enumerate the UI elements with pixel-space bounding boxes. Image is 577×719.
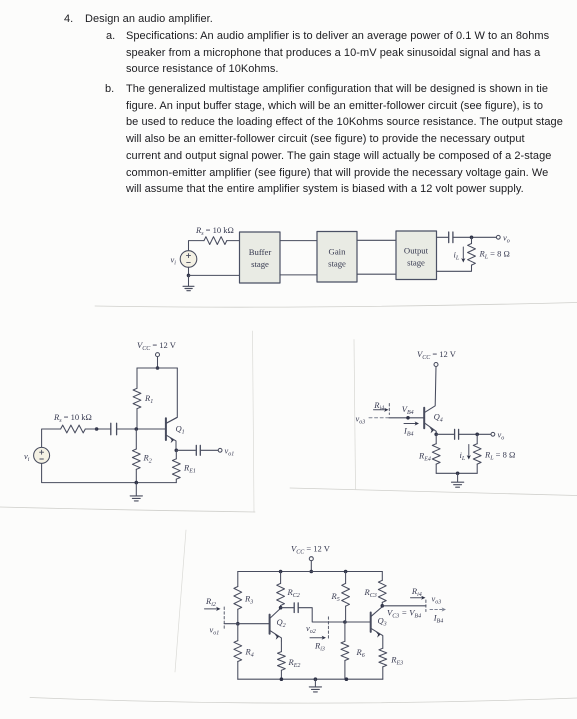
label vo1 — [225, 446, 235, 458]
transistor Q4 — [424, 408, 436, 435]
label Ri3 — [314, 641, 325, 653]
capacitor output coupling (fig2) — [196, 445, 200, 455]
transistor Q3 — [371, 607, 383, 649]
node junction RC2 rail — [279, 570, 283, 574]
svg-text:RC2: RC2 — [287, 587, 300, 599]
source vi (fig2) — [34, 447, 50, 463]
scan edge right of figure 2 — [253, 331, 255, 512]
ground (fig4) — [309, 679, 321, 692]
transistor Q1 — [166, 418, 177, 451]
label RE1 — [183, 463, 196, 475]
svg-text:VB4: VB4 — [402, 404, 414, 416]
label vo3 (fig3, faint) — [356, 414, 366, 426]
label R3 — [244, 594, 253, 606]
resistor R4 — [234, 624, 242, 680]
svg-text:R2: R2 — [143, 453, 152, 465]
node junction emitter (fig2) — [175, 449, 179, 453]
resistor R6 — [341, 622, 349, 679]
label VCC = 12 V (fig2) — [137, 340, 177, 352]
resistor R1 — [133, 368, 141, 429]
node junction emitter (fig3) — [434, 433, 438, 437]
svg-text:Q1: Q1 — [176, 424, 185, 436]
svg-text:Q4: Q4 — [434, 412, 443, 424]
label Q3 — [378, 616, 387, 628]
node junction bottom rail (fig3) — [456, 472, 460, 476]
svg-text:Ri2: Ri2 — [205, 596, 216, 608]
svg-text:vo2: vo2 — [306, 623, 316, 635]
label R2 — [143, 453, 152, 465]
wire base (fig2) — [117, 428, 166, 430]
wire source bottom — [188, 267, 190, 275]
label vi (fig1) — [171, 255, 177, 267]
resistor Rs (fig1) — [204, 237, 227, 245]
terminal vo (fig3) — [491, 432, 495, 436]
resistor RC2 — [277, 572, 285, 608]
label VCC = 12 V (fig4) — [291, 544, 331, 556]
svg-text:VCC = 12 V: VCC = 12 V — [417, 349, 457, 361]
svg-text:vo3: vo3 — [432, 594, 442, 606]
label IB4 (fig4) — [433, 613, 444, 625]
ground (fig3) — [452, 473, 464, 487]
svg-text:RE4: RE4 — [418, 451, 431, 463]
svg-text:VCC = 12 V: VCC = 12 V — [137, 340, 177, 352]
svg-text:RL = 8 Ω: RL = 8 Ω — [484, 450, 515, 462]
node junction VCC rail (fig4) — [310, 570, 314, 574]
label vo (fig3) — [498, 430, 505, 442]
resistor RE1 — [172, 450, 180, 482]
node junction base Q3 — [343, 620, 347, 624]
arrow Ri3 — [310, 617, 328, 640]
svg-text:IB4: IB4 — [403, 426, 414, 438]
svg-text:vo3: vo3 — [356, 414, 366, 426]
capacitor interstage coupling — [294, 603, 298, 613]
label RL = 8 Ohm (fig3) — [484, 450, 515, 462]
label RL = 8 Ohm (fig1) — [479, 249, 510, 261]
resistor RE3 — [379, 648, 387, 679]
capacitor output coupling (fig3) — [455, 429, 459, 439]
svg-text:vo1: vo1 — [210, 625, 220, 637]
resistor RE4 — [432, 434, 440, 473]
svg-text:Rs = 10 kΩ: Rs = 10 kΩ — [53, 412, 92, 424]
label IB4 (fig3) — [403, 426, 414, 438]
label Ri4 (fig3) — [373, 400, 384, 412]
svg-text:stage: stage — [407, 258, 425, 268]
label vo3 (fig4, faint) — [432, 594, 442, 606]
node junction base (fig2) — [135, 427, 139, 431]
scan edge below figure 4 — [30, 698, 577, 704]
label Q2 — [277, 617, 286, 629]
node junction R6 bottom — [345, 677, 349, 681]
svg-text:RC3: RC3 — [364, 587, 377, 599]
resistor R5 — [342, 572, 350, 623]
node junction ground (fig4) — [314, 677, 318, 681]
gain stage box — [317, 232, 357, 283]
wire resistor to buffer box — [227, 240, 240, 242]
wire gain to output bottom — [357, 273, 396, 275]
svg-text:VC3 = VB4: VC3 = VB4 — [387, 608, 421, 620]
node junction RE2 bottom — [280, 677, 284, 681]
wire capacitor to terminal vo (fig3) — [459, 433, 491, 435]
wire collector branch (fig2) — [167, 368, 178, 423]
label vo1 (fig4) — [210, 625, 220, 637]
node junction R5 rail — [344, 570, 348, 574]
svg-text:R6: R6 — [356, 647, 365, 659]
label RC2 — [287, 587, 300, 599]
svg-text:R5: R5 — [331, 591, 340, 603]
svg-text:Ri4: Ri4 — [411, 586, 422, 598]
label Rs = 10 kOhm — [195, 225, 234, 237]
label R6 — [356, 647, 365, 659]
wire emitter to capacitor (fig3) — [436, 433, 454, 435]
output stage box — [396, 231, 437, 280]
wire gain to output top — [357, 239, 396, 241]
svg-text:vo1: vo1 — [225, 446, 235, 458]
wire bottom rail (fig4) — [238, 678, 383, 680]
svg-text:Q3: Q3 — [378, 616, 387, 628]
wire bottom rail (fig3) — [436, 472, 477, 474]
label RE2 — [288, 657, 301, 669]
terminal VCC (fig4) — [309, 557, 313, 561]
wire emitter to capacitor (fig2) — [176, 449, 195, 451]
resistor RC3 — [378, 572, 386, 606]
node junction base VB4 — [406, 416, 410, 420]
label vo (fig1) — [503, 233, 510, 245]
svg-text:vi: vi — [24, 451, 30, 463]
label RC3 — [364, 587, 377, 599]
wire capacitor to output terminal — [453, 236, 497, 238]
svg-text:vo: vo — [503, 233, 510, 245]
terminal vo (fig1) — [496, 235, 500, 239]
wire VCC to rail — [157, 357, 159, 368]
wire source top to resistor — [189, 241, 205, 251]
svg-text:RE2: RE2 — [288, 657, 301, 669]
label VB4 — [402, 404, 414, 416]
arrow IB4 (fig4, faint) — [430, 607, 446, 611]
arrow Ri4 (fig4) — [411, 596, 426, 612]
svg-text:RL = 8 Ω: RL = 8 Ω — [479, 249, 510, 261]
label iL (fig3) — [460, 450, 466, 462]
svg-text:Ri3: Ri3 — [314, 641, 325, 653]
node junction base Q2 — [236, 622, 240, 626]
arrow IB4 (fig3) — [404, 421, 419, 425]
label Rs = 10 kOhm (fig2) — [53, 412, 92, 424]
label VCC = 12 V (fig3) — [417, 349, 457, 361]
wire buffer to gain top — [280, 240, 317, 242]
wire top rail (fig4) — [238, 571, 382, 573]
wire top rail (fig2) — [137, 367, 177, 369]
transistor Q2 — [270, 608, 282, 641]
buffer stage box — [240, 232, 281, 283]
wire VCC to collector Q4 — [425, 367, 436, 413]
svg-text:Q2: Q2 — [277, 617, 286, 629]
wire dashed vo3 input (fig3) — [369, 417, 388, 419]
label vi (fig2) — [24, 451, 30, 463]
current arrow iL (fig1) — [461, 247, 465, 263]
svg-text:Gain: Gain — [329, 247, 347, 257]
scan edge below figure 1 — [95, 303, 577, 308]
resistor R2 — [132, 429, 140, 483]
label Q1 — [176, 424, 185, 436]
svg-text:vo: vo — [498, 430, 505, 442]
resistor R3 — [234, 572, 242, 624]
wire collector Q3 output — [382, 605, 426, 607]
wire Rs to capacitor (fig2) — [97, 428, 111, 430]
resistor Rs (fig2) — [42, 425, 97, 447]
svg-text:IB4: IB4 — [433, 613, 444, 625]
svg-text:Rs = 10 kΩ: Rs = 10 kΩ — [195, 225, 234, 237]
wire bottom source to buffer box — [189, 274, 240, 276]
capacitor input coupling (fig2) — [111, 423, 117, 434]
arrow Ri2 — [205, 607, 225, 630]
label R1 — [144, 393, 153, 405]
wire base Q2 — [224, 623, 269, 625]
label VC3 = VB4 — [387, 608, 421, 620]
source vi (fig1) — [180, 251, 197, 268]
label Ri4 (fig4) — [411, 586, 422, 598]
node junction bottom rail (fig2) — [135, 481, 139, 485]
label R5 — [331, 591, 340, 603]
svg-text:stage: stage — [328, 259, 346, 269]
svg-text:R4: R4 — [245, 647, 254, 659]
capacitor (fig1 output coupling) — [449, 232, 453, 243]
label iL (fig1) — [454, 250, 460, 262]
svg-text:stage: stage — [251, 259, 269, 269]
scan edge below figure 3 — [290, 488, 577, 496]
scan edge below figure 2 — [0, 507, 255, 512]
node junction after Rs (fig2) — [95, 427, 99, 431]
wire VCC to rail (fig4) — [310, 561, 312, 572]
wire collector to capacitor (fig4) — [281, 607, 294, 609]
node junction at RL top — [470, 236, 474, 240]
scan edge left of figure 4 — [175, 530, 186, 672]
resistor RE2 — [278, 641, 286, 679]
node junction collector Q3 — [381, 604, 385, 608]
node junction collector Q2 — [279, 606, 283, 610]
svg-text:iL: iL — [460, 450, 466, 462]
label RE4 — [418, 451, 431, 463]
arrow Ri4 (fig3) — [374, 404, 390, 415]
svg-text:iL: iL — [454, 250, 460, 262]
node junction RL top (fig3) — [475, 433, 479, 437]
ground (fig2) — [130, 483, 142, 501]
node junction VCC rail (fig2) — [156, 366, 160, 370]
svg-text:R3: R3 — [244, 594, 253, 606]
node junction at source bottom — [187, 274, 191, 278]
wire base (fig3) — [389, 417, 425, 419]
svg-text:VCC = 12 V: VCC = 12 V — [291, 544, 331, 556]
wire output box to capacitor — [437, 236, 449, 238]
problem text — [64, 13, 73, 25]
svg-text:vi: vi — [171, 255, 177, 267]
svg-text:RE1: RE1 — [183, 463, 196, 475]
label Q4 — [434, 412, 443, 424]
label vo2 — [306, 623, 316, 635]
svg-text:RE3: RE3 — [390, 655, 403, 667]
resistor RL (fig1) — [437, 237, 476, 271]
label R4 — [245, 647, 254, 659]
wire capacitor to base Q3 — [298, 608, 371, 622]
label Ri2 — [205, 596, 216, 608]
ground (fig1 source) — [183, 275, 194, 290]
terminal VCC (fig2) — [156, 353, 160, 357]
svg-text:Output: Output — [404, 246, 429, 256]
terminal VCC (fig3) — [434, 363, 438, 367]
wire buffer to gain bottom — [280, 274, 317, 276]
label RE3 — [390, 655, 403, 667]
terminal vo1 — [218, 448, 222, 452]
current arrow iL (fig3) — [467, 445, 471, 460]
scan edge left of figure 3 — [354, 340, 356, 490]
wire capacitor to terminal vo1 — [200, 449, 218, 451]
svg-text:Buffer: Buffer — [249, 247, 272, 257]
resistor RL (fig3) — [473, 434, 481, 473]
wire source bottom to rail (fig2) — [42, 463, 177, 482]
svg-text:R1: R1 — [144, 393, 153, 405]
